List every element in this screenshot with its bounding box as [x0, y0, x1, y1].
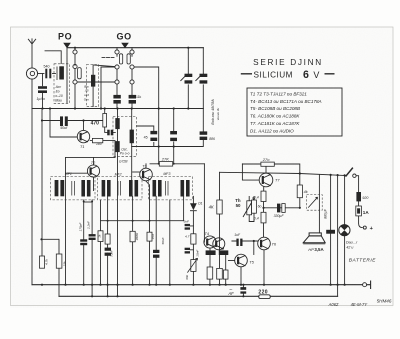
wire T2 base [66, 172, 88, 174]
wire 15k branch [58, 239, 60, 296]
wire col 83.7 [83, 200, 85, 285]
wire battery column [344, 175, 346, 284]
resistor 470 [103, 114, 107, 128]
wire osc coil column [131, 109, 133, 182]
GO triangle [121, 43, 129, 48]
wire cap45 [137, 126, 154, 147]
wire 1uF stubs [232, 240, 258, 242]
osc coil box small [87, 65, 99, 107]
wire T4 emitter [209, 248, 211, 267]
resistor 120 fuse chain [356, 192, 361, 201]
wire AGC line low [101, 220, 184, 222]
wire T4 res bottom [209, 279, 211, 285]
wire stage box line [66, 156, 116, 158]
resistor 4k out [297, 185, 302, 198]
wire col 107.6 [107, 196, 109, 296]
coil bar upper [115, 118, 119, 129]
capacitor 540 [45, 69, 51, 79]
transistor T2 [87, 165, 99, 177]
thermistor Th 50 [243, 198, 255, 218]
wire antenna column [31, 79, 33, 285]
transistor T6 [258, 237, 271, 250]
capacitor 10nF det [185, 248, 190, 254]
wire T1 emitter resistor [90, 141, 115, 158]
wire col 337.6 [337, 175, 339, 296]
capacitor 886 [200, 131, 208, 140]
wire T5 base [228, 260, 234, 262]
wire col 170 [169, 200, 171, 285]
wire T7 base [242, 164, 259, 180]
wire 04 link [263, 202, 265, 238]
resistor under T4 [207, 267, 213, 279]
wire T3 collector/emitter [146, 164, 150, 232]
capacitor 4u/40 [38, 86, 47, 93]
wire coil row [78, 65, 115, 82]
wire col 183.6 [183, 196, 185, 220]
bus2 bottom [59, 295, 338, 297]
wire detector column [192, 196, 194, 284]
capacitor 880uF [326, 230, 335, 234]
resistor 4K driver [217, 200, 222, 214]
wire T5 collector to T6 [253, 241, 255, 255]
wire capB column [173, 109, 175, 164]
resistor 220 [259, 295, 270, 299]
capacitor 330uF [277, 204, 285, 213]
transistor T3 [140, 168, 153, 181]
capacitor B mid [170, 131, 177, 141]
parts table box [247, 88, 342, 136]
wire osc coil bottom [93, 67, 115, 109]
trimmer capacitors switch [78, 54, 131, 79]
wire switch to osc [134, 67, 159, 164]
antenna [28, 39, 35, 67]
speaker [303, 233, 325, 244]
wire T4 base column [203, 164, 206, 242]
output jack [363, 281, 371, 288]
wire switch stubs [75, 48, 132, 109]
wire [53, 73, 56, 75]
capacitor 70nF [105, 248, 111, 251]
transistor T7 [259, 173, 273, 187]
wire col 65.5 [65, 157, 67, 284]
resistor 4,7k bottom [40, 256, 45, 268]
wire col 319 [318, 175, 320, 233]
capacitor 1n det [185, 224, 190, 230]
capacitor 170pF [80, 239, 87, 245]
wire osc line [132, 140, 204, 147]
wire T1 collector [83, 121, 85, 131]
wire col 330.6 [330, 175, 332, 285]
osc coil bar [130, 130, 134, 144]
resistor 468R [130, 231, 135, 242]
switch contacts PO/GO [73, 50, 134, 84]
resistor 15k bottom [56, 254, 62, 268]
resistor 60 [252, 200, 257, 213]
battery terminal [363, 226, 366, 229]
wire fuse chain [356, 176, 362, 228]
transistor T5 [235, 254, 248, 267]
wire link 84-92 [84, 201, 92, 203]
potentiometer volume [187, 258, 197, 272]
resistor 0,4 upper [261, 191, 266, 201]
wire 50uF branch [42, 120, 103, 122]
wire T7 emitter [263, 187, 265, 191]
resistor col107 [105, 234, 110, 244]
wire battery bus [220, 172, 347, 175]
battery cell symbol [339, 225, 350, 236]
wire 4K column lower [219, 214, 221, 285]
bus1 bottom [32, 284, 362, 286]
resistor 270 [261, 162, 274, 166]
wire choke column [117, 109, 119, 297]
transistor T4 [204, 236, 216, 248]
resistor 180 [92, 138, 102, 142]
wire T1 base [50, 109, 77, 138]
transistor T1 [77, 130, 89, 142]
capacitor 50nF [153, 250, 159, 253]
wire T7 collector [265, 165, 267, 173]
junction dots bottom [41, 172, 346, 297]
junction dots mid [83, 163, 175, 222]
osc trimmer cap 2 [200, 74, 208, 84]
switch on/off [346, 168, 356, 177]
padder capacitor A [113, 95, 120, 104]
wire ferrite rod top [45, 51, 61, 64]
IF transformer 1 dashed box [51, 177, 96, 200]
osc transformer dashed box [113, 117, 137, 157]
wire 27K line [150, 163, 204, 165]
capacitor 2,2nF [89, 234, 96, 240]
wire link bottom resistors [42, 238, 60, 240]
wire top rail [67, 47, 203, 49]
capacitor 50uF [60, 116, 68, 126]
wire col 92 [91, 200, 93, 296]
wire Th stubs [249, 197, 254, 222]
wire T5 emitter [240, 267, 242, 285]
wire 4K top [219, 172, 221, 200]
wire T2 collector/emitter [93, 157, 95, 190]
wire long column left [41, 109, 43, 257]
thermistor dashed box [307, 195, 323, 211]
fuse 1A [356, 206, 362, 216]
title SILICIUM 6V [241, 69, 335, 81]
capacitor AF coupling [240, 287, 246, 294]
wire 270 line [242, 164, 299, 208]
wire col 132.6 [132, 196, 134, 284]
wire AF coupling [242, 285, 244, 297]
wire col 149.5 bottom [149, 241, 151, 285]
wire 470 resistor column [105, 109, 116, 133]
capacitor 45 [150, 131, 157, 141]
transistor pair aux [213, 238, 225, 250]
PO triangle [63, 43, 71, 48]
wire out junction line [264, 207, 300, 209]
wire col 156 [155, 196, 157, 284]
resistor third bottom [223, 270, 228, 279]
diode D1 [190, 203, 197, 210]
IF transformer 2 dashed box [98, 177, 143, 200]
osc trimmer cap 1 [185, 74, 193, 84]
wire dash stub [102, 57, 115, 59]
capacitor at T1 [107, 130, 113, 136]
wire T3 base [133, 171, 140, 173]
resistor 0,4 lower [261, 212, 266, 223]
resistor mid bottom [217, 268, 223, 279]
wire osc trimmer columns [188, 48, 203, 132]
wire AGC bus [32, 108, 203, 110]
wire cap 4u branch [42, 74, 44, 109]
wire det cap stubs [190, 226, 193, 250]
resistor 470b [147, 232, 152, 241]
wire col 225.7 [225, 252, 227, 285]
border frame [11, 27, 394, 306]
wire T6 emitter [263, 250, 265, 285]
padder capacitor B [129, 95, 136, 104]
coil bar lower [115, 141, 119, 152]
capacitor under pair [206, 250, 216, 255]
antenna coil box [54, 64, 69, 104]
wire col 100.5 [100, 200, 102, 285]
scan grain [10, 27, 393, 308]
wire PO line down [66, 48, 68, 103]
resistor 1k col100 [98, 231, 103, 242]
IF transformer 3 dashed box [149, 177, 193, 200]
resistor 27K [159, 162, 172, 167]
antenna input jack [26, 68, 44, 79]
trimmer arrows [181, 77, 200, 81]
resistor det 4,7 [191, 234, 196, 244]
junction dots top [40, 47, 189, 241]
capacitor 1uF [236, 239, 242, 246]
